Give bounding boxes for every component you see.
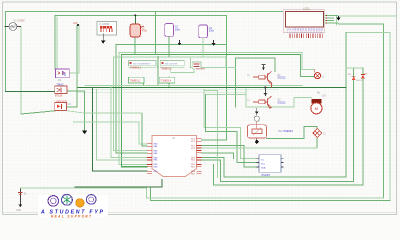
power arrow above RV1 xyxy=(255,108,259,116)
svg-text:TOMBOL2: TOMBOL2 xyxy=(161,68,173,70)
svg-text:⊙ SW_INCREMENT: ⊙ SW_INCREMENT xyxy=(131,62,152,65)
wire: q loop left leg 2 xyxy=(206,95,257,163)
diode D1 xyxy=(348,74,363,82)
wire: button row ties xyxy=(129,66,185,68)
wire: left stair to PIC pin y=143.8 xyxy=(74,122,147,144)
wire: left vertical drop to triac box xyxy=(5,12,7,92)
wire: button column vertical 2 xyxy=(168,77,170,88)
svg-text:J1 CONN: J1 CONN xyxy=(99,23,110,26)
wire: motor link xyxy=(206,89,312,107)
wire: PIC right pin y=145.5 stair xyxy=(202,146,257,168)
opto U3 MOC3021 xyxy=(55,100,71,110)
svg-text:2N2222: 2N2222 xyxy=(278,102,287,104)
wire: left stair x=142 xyxy=(142,113,147,146)
wire: power symbol rail y=188 xyxy=(20,188,383,198)
svg-text:TOMBOL1: TOMBOL1 xyxy=(130,68,142,70)
capacitor C1 (red) xyxy=(130,24,147,37)
motor M1 xyxy=(311,93,327,114)
junction on bus xyxy=(264,87,266,89)
wire: D1 branch vertical x=353.7 xyxy=(202,68,354,182)
wire: y=56.6 bus xyxy=(114,57,227,151)
wire: transistor loop top xyxy=(236,58,275,71)
wire: AC source right lead drop xyxy=(20,27,22,115)
wire: bottom dark return loop xyxy=(150,187,390,201)
svg-text:GND: GND xyxy=(16,210,21,212)
wire: slope feed into stair xyxy=(68,111,143,113)
wire: cap C1 top lead xyxy=(134,15,136,24)
wire: cap C2 lead down xyxy=(168,36,170,56)
wire: light bus y=85.3 xyxy=(85,84,302,86)
ground arrow below U3 net xyxy=(82,131,87,135)
svg-text:BUZZER: BUZZER xyxy=(196,69,205,71)
svg-text:M: M xyxy=(315,106,318,111)
lamp L2 diamond xyxy=(313,129,326,138)
wire: main dark bus y=87.5 xyxy=(77,87,346,89)
wire: cap C1 bottom lead xyxy=(134,37,136,55)
wire: top rail from left border to LCD xyxy=(6,11,286,13)
RV1 wiper circle xyxy=(254,116,259,121)
wire: button jog xyxy=(157,66,194,73)
push button SW2 xyxy=(160,60,184,70)
wire: button column vertical xyxy=(157,57,159,86)
AC source V1 xyxy=(5,19,26,31)
RTC U7 xyxy=(256,155,283,177)
wire: opto U3 right pin xyxy=(67,106,78,108)
logo student fyp xyxy=(38,194,108,218)
transistor Q1 with base resistor xyxy=(247,71,286,87)
battery/fuse symbol bottom left xyxy=(16,188,27,212)
ground under J1 xyxy=(101,41,106,44)
wire: y=44.3 rail xyxy=(116,44,227,153)
wire: second top rail to VCC drop xyxy=(55,14,226,16)
wire: triac box left feed dark xyxy=(6,91,55,93)
svg-text:100n: 100n xyxy=(209,30,215,33)
wire: triac box right to ground arrow drop xyxy=(67,91,85,131)
svg-text:12V: 12V xyxy=(322,95,327,97)
wire: light bus y=92.3 xyxy=(77,91,246,93)
buzzer BUZ1 xyxy=(192,62,205,71)
wire: x=155.5 drop from top rail xyxy=(155,12,157,55)
connector J1 socket xyxy=(97,21,117,40)
wire: LCD rail right y=16.2 xyxy=(339,15,397,17)
wire: drop x=111 to PIC pin xyxy=(111,85,147,157)
wire: y=32.5 top link to far right loop xyxy=(346,33,390,201)
svg-text:BT136: BT136 xyxy=(55,94,63,97)
junction x=78 y=25 xyxy=(77,24,79,26)
lamp L1 xyxy=(314,69,325,78)
LCD LM016L xyxy=(283,6,338,38)
wire: vertical x=79 to U2 xyxy=(69,25,79,73)
wire: vertical x=77 xyxy=(76,25,78,107)
svg-text:470u: 470u xyxy=(142,29,148,32)
PIC16F877A U1 xyxy=(147,135,202,176)
svg-text:⊙ SW_DECRE: ⊙ SW_DECRE xyxy=(162,62,177,65)
wire: PIC right pin y=152.8 xyxy=(202,153,234,159)
transistor Q2 with base resistor xyxy=(247,96,286,108)
triac box U6 xyxy=(55,84,67,98)
wire: q loop left leg xyxy=(204,89,256,158)
svg-text:OSC: OSC xyxy=(154,171,159,173)
svg-text:TOMBOL3: TOMBOL3 xyxy=(130,80,142,82)
regulator U5 (purple) xyxy=(199,25,215,38)
svg-text:RV1: RV1 xyxy=(278,130,283,133)
svg-text:PRESET: PRESET xyxy=(284,130,294,133)
wire: cap C3 lead down xyxy=(202,38,204,57)
svg-text:SDA: SDA xyxy=(261,167,266,170)
ground under C2 xyxy=(178,40,182,46)
svg-text:+5V: +5V xyxy=(73,22,78,25)
svg-text:1N4007: 1N4007 xyxy=(356,80,364,82)
diode D2 xyxy=(361,74,368,79)
ground under U5 xyxy=(212,40,216,46)
opto U2 xyxy=(56,69,70,82)
wire: VCC vertical x=226.5 down through buses xyxy=(226,15,228,140)
wire: dark drop x=92.5 xyxy=(93,88,147,172)
wire: PIC right pin y=140.2 xyxy=(202,139,227,141)
wire: diode tie bar y=68 xyxy=(346,67,363,69)
power arrow Q2 xyxy=(263,88,267,97)
wire: diamond lamp feed xyxy=(267,126,318,138)
svg-text:VSINE: VSINE xyxy=(18,20,26,23)
power arrow Q1 xyxy=(262,65,266,71)
wire: double drop to opto U2 xyxy=(54,15,56,69)
wire: D2 branch vertical x=362.9 xyxy=(214,68,363,185)
capacitor C2 (purple) xyxy=(165,24,181,37)
wire: D1 branch vertical x=346 xyxy=(202,33,346,178)
ground diamond below RV1 xyxy=(255,138,259,144)
wire: LCD ground stem xyxy=(336,16,338,25)
push button SW3 xyxy=(129,77,144,83)
svg-text:TOMBOL4: TOMBOL4 xyxy=(160,80,172,82)
ground at LCD right xyxy=(336,16,340,20)
wire: LCD to right loop y=24 xyxy=(339,24,384,198)
svg-text:2N2222: 2N2222 xyxy=(278,78,287,80)
potentiometer RV1 xyxy=(248,121,294,138)
push button SW1 xyxy=(129,60,157,69)
wire: drop from q2 area to bottom run xyxy=(205,91,218,178)
wire: y=54.6 bus xyxy=(122,55,301,167)
svg-text:R: R xyxy=(64,73,66,77)
wire: PIC right pin y=148 stair xyxy=(202,147,317,149)
wire: sloped run to opto U3 xyxy=(21,111,55,114)
wire: y=52.4 bus xyxy=(119,52,302,164)
wire: button D stub xyxy=(143,83,145,86)
junction at C1 top xyxy=(134,14,136,16)
push button SW4 xyxy=(159,77,174,83)
svg-text:100n: 100n xyxy=(175,28,181,31)
svg-text:DS1307: DS1307 xyxy=(262,174,271,177)
wire: light bus y=89.3 xyxy=(85,88,278,90)
